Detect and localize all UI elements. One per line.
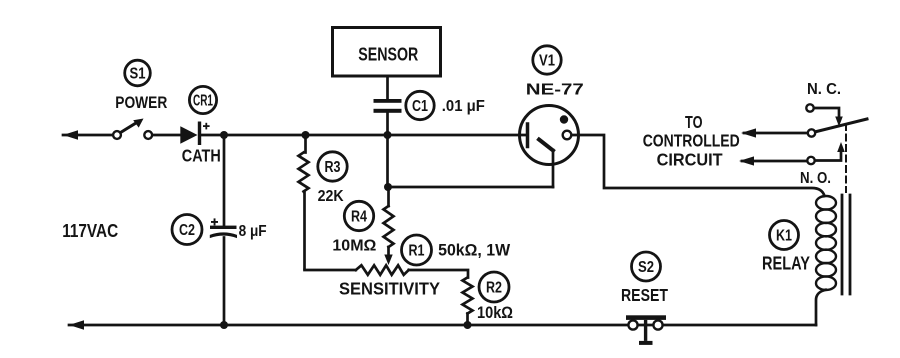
svg-text:POWER: POWER — [115, 94, 167, 112]
svg-text:S2: S2 — [638, 259, 654, 276]
svg-text:R4: R4 — [351, 209, 367, 226]
svg-text:117VAC: 117VAC — [62, 220, 118, 241]
svg-text:V1: V1 — [539, 53, 555, 70]
svg-text:C1: C1 — [412, 98, 428, 115]
svg-text:S1: S1 — [130, 66, 146, 83]
svg-text:10kΩ: 10kΩ — [477, 303, 513, 322]
svg-text:8 μF: 8 μF — [239, 223, 267, 240]
svg-text:N. C.: N. C. — [807, 81, 841, 98]
svg-text:R1: R1 — [409, 243, 425, 260]
svg-text:K1: K1 — [776, 228, 792, 245]
svg-text:RELAY: RELAY — [762, 254, 810, 274]
svg-text:NE-77: NE-77 — [526, 81, 584, 98]
svg-text:RESET: RESET — [621, 285, 668, 305]
svg-text:SENSITIVITY: SENSITIVITY — [339, 279, 440, 299]
svg-text:R3: R3 — [325, 159, 341, 176]
svg-text:22K: 22K — [318, 188, 345, 205]
svg-text:C2: C2 — [179, 222, 195, 239]
svg-text:SENSOR: SENSOR — [358, 44, 418, 65]
svg-text:CIRCUIT: CIRCUIT — [657, 150, 723, 170]
svg-text:10MΩ: 10MΩ — [332, 238, 376, 255]
svg-text:CR1: CR1 — [193, 93, 213, 110]
svg-text:TO: TO — [685, 112, 703, 132]
svg-text:.01 μF: .01 μF — [442, 98, 485, 115]
svg-text:R2: R2 — [486, 280, 502, 297]
svg-text:N. O.: N. O. — [800, 170, 831, 187]
svg-text:CONTROLLED: CONTROLLED — [643, 130, 740, 150]
svg-text:50kΩ, 1W: 50kΩ, 1W — [438, 240, 511, 259]
svg-text:CATH: CATH — [182, 146, 221, 166]
